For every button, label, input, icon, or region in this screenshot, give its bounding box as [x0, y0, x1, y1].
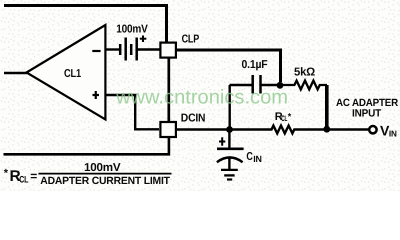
capacitor 0.1uF plates: [251, 75, 254, 94]
wire CLP to DCIN vertical link: [167, 58, 170, 122]
node junction dot at 5k/VIN: [323, 126, 330, 133]
svg-text:www.cntronics.com: www.cntronics.com: [115, 87, 288, 109]
wire DCIN bottom return to left: [4, 137, 169, 154]
wire battery to CLP box: [138, 48, 161, 50]
op-amp CL1: [27, 25, 106, 120]
svg-text:CL: CL: [281, 114, 287, 123]
wire node down to CIN: [228, 130, 230, 148]
wire minus input to battery: [106, 48, 119, 50]
wire plus input to DCIN: [106, 95, 159, 129]
wire CLP right to corner and down to node: [176, 50, 281, 82]
capacitor CIN polarized: [217, 147, 244, 150]
fraction bar: [39, 173, 172, 175]
svg-text:=: =: [30, 169, 37, 183]
svg-text:0.1µF: 0.1µF: [242, 59, 268, 71]
resistor 5k zigzag: [283, 81, 327, 90]
CIN plus polarity mark: [219, 137, 225, 145]
op-amp plus input label: [93, 94, 100, 96]
svg-text:CLP: CLP: [182, 34, 200, 46]
wire op-amp output stub: [4, 72, 27, 74]
wire CIN to ground: [228, 159, 230, 170]
svg-text:CL: CL: [19, 174, 28, 185]
svg-text:INPUT: INPUT: [352, 108, 382, 120]
op-amp minus input label: [92, 50, 100, 52]
svg-text:DCIN: DCIN: [181, 112, 206, 124]
svg-text:100mV: 100mV: [84, 162, 121, 174]
node junction dot at CIN: [226, 126, 233, 133]
wire 0.1uF left corner down to main rail: [228, 85, 230, 130]
ground: [221, 170, 238, 180]
node junction dot at 0.1uF / 5k: [277, 82, 284, 89]
pin box DCIN: [160, 122, 176, 137]
svg-text:5kΩ: 5kΩ: [294, 67, 315, 79]
svg-text:ADAPTER CURRENT LIMIT: ADAPTER CURRENT LIMIT: [40, 175, 170, 187]
pin box CLP: [160, 43, 176, 58]
wire 5k down to VIN rail: [325, 85, 329, 127]
svg-text:100mV: 100mV: [116, 23, 148, 35]
wire top rail from left edge to CLP pin: [4, 6, 167, 42]
terminal VIN open circle: [369, 126, 376, 133]
battery plus polarity mark: [140, 36, 147, 43]
wire capacitor C2 right plate to node B: [261, 84, 280, 86]
svg-text:IN: IN: [389, 128, 397, 138]
svg-text:IN: IN: [253, 154, 262, 164]
svg-text:CL1: CL1: [64, 68, 82, 80]
main rail DCIN to VIN with RCL resistor: [176, 126, 368, 134]
wire node A to capacitor C2 left plate: [230, 84, 253, 86]
battery 100mV: [120, 38, 137, 61]
svg-text:C: C: [246, 151, 252, 163]
